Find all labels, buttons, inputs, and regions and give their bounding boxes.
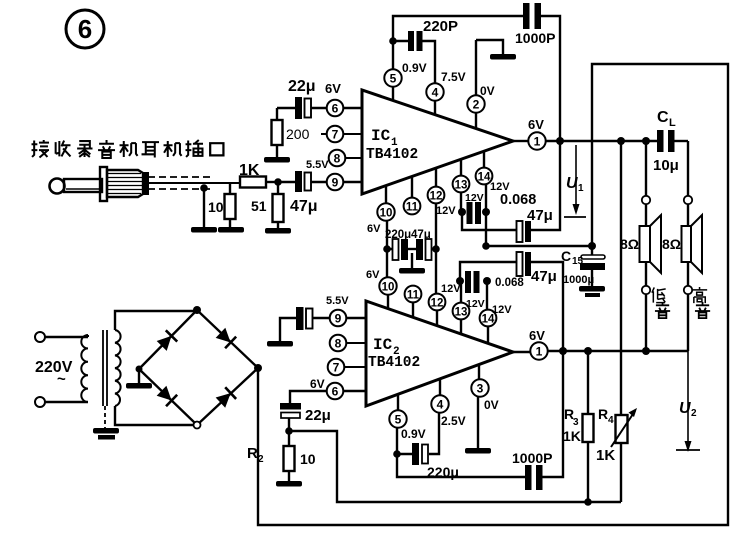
svg-text:47μ: 47μ xyxy=(531,268,557,285)
svg-text:1000P: 1000P xyxy=(515,30,555,46)
pin 10 (IC1) xyxy=(367,186,395,249)
svg-text:1K: 1K xyxy=(239,162,260,179)
svg-text:51: 51 xyxy=(251,198,267,214)
IC2 top pin 10 xyxy=(366,249,397,309)
svg-text:13: 13 xyxy=(455,180,468,192)
svg-text:15: 15 xyxy=(572,256,584,267)
svg-text:12V: 12V xyxy=(441,283,461,295)
svg-text:5: 5 xyxy=(395,413,402,427)
svg-text:220μ: 220μ xyxy=(385,229,411,241)
svg-text:3: 3 xyxy=(477,382,484,396)
ground (R2) xyxy=(276,481,302,487)
IC2 pin 8 xyxy=(330,335,366,352)
svg-text:14: 14 xyxy=(478,172,491,184)
node: C15 xyxy=(588,242,596,250)
ground (IC2 pin 3) xyxy=(465,448,491,454)
svg-text:6: 6 xyxy=(332,102,339,116)
svg-text:22μ: 22μ xyxy=(288,78,316,95)
pin 8 xyxy=(306,150,362,171)
pin 11 (IC1) xyxy=(404,177,421,214)
svg-text:6V: 6V xyxy=(310,377,325,391)
IC2 pin 6 xyxy=(290,377,366,403)
svg-text:0.9V: 0.9V xyxy=(401,427,426,441)
svg-text:2.5V: 2.5V xyxy=(441,414,466,428)
pin 1 output IC1 xyxy=(513,117,546,150)
pin 9 xyxy=(327,174,362,191)
node: output/woofer xyxy=(642,137,650,145)
node: output/R4 xyxy=(617,137,625,145)
svg-text:IC: IC xyxy=(371,127,391,145)
node at pin5 top xyxy=(389,37,397,45)
node: R3 bottom xyxy=(584,498,592,506)
wire: shield to ground xyxy=(203,187,205,227)
svg-text:7: 7 xyxy=(333,361,340,375)
svg-text:200: 200 xyxy=(286,126,310,142)
svg-text:1K: 1K xyxy=(563,428,581,444)
svg-text:47μ: 47μ xyxy=(290,198,318,215)
wire: IC1 output line xyxy=(546,140,657,143)
resistor 1K (series) xyxy=(239,162,278,188)
resistor R3 1K xyxy=(563,351,594,502)
svg-text:7: 7 xyxy=(332,128,339,142)
svg-text:8Ω: 8Ω xyxy=(620,236,639,252)
svg-text:6V: 6V xyxy=(325,81,341,96)
svg-text:5.5V: 5.5V xyxy=(306,159,329,171)
pin 5 xyxy=(384,41,426,100)
svg-text:4: 4 xyxy=(608,415,614,426)
capacitor CL 10u xyxy=(653,109,688,174)
wire: rail to C15 node xyxy=(486,245,592,247)
ground (cap pair) xyxy=(399,268,425,274)
node: output/woofer return xyxy=(642,347,650,355)
svg-text:5.5V: 5.5V xyxy=(326,295,349,307)
node: bridge + xyxy=(254,364,262,372)
svg-text:1: 1 xyxy=(534,135,541,149)
node: pin14 line / V+ rail xyxy=(482,242,490,250)
pin 14 (IC1) xyxy=(476,151,511,246)
label woofer (Chinese) xyxy=(652,287,670,318)
node: output/1000P-47u xyxy=(559,347,567,355)
diode D4 (bottom-right edge) xyxy=(215,387,236,408)
ground (under 200) xyxy=(264,157,290,163)
ground (under 10) xyxy=(218,227,244,233)
svg-text:L: L xyxy=(669,117,676,129)
svg-text:TB4102: TB4102 xyxy=(368,355,420,371)
capacitor 220u (IC2 pin5-pin4) xyxy=(397,413,459,480)
IC2 pin 9 xyxy=(326,295,366,326)
transformer T1 xyxy=(81,311,197,428)
node: output/1000P xyxy=(556,137,564,145)
svg-text:10: 10 xyxy=(300,451,316,467)
ground (shield) xyxy=(191,227,217,233)
capacitor 47u feedback (IC1) xyxy=(462,141,560,242)
ground (IC2 input) xyxy=(267,341,293,347)
capacitor 220P (pin5 to pin4) xyxy=(393,18,458,83)
diode D2 (top-right edge) xyxy=(215,327,236,348)
diode D1 (left-top edge) xyxy=(156,330,177,351)
capacitor 47u feedback (IC2) xyxy=(460,252,563,351)
resistor 200 xyxy=(272,108,310,157)
capacitor 22u (IC2 input bias) xyxy=(280,403,331,431)
pin 1 output IC2 xyxy=(513,328,548,360)
svg-text:1000μ: 1000μ xyxy=(563,274,594,286)
svg-text:0.068: 0.068 xyxy=(500,192,536,208)
svg-text:7.5V: 7.5V xyxy=(441,70,466,84)
svg-text:6V: 6V xyxy=(528,117,544,132)
IC2 pin 11 xyxy=(405,286,422,317)
speaker tweeter 8 ohm xyxy=(662,141,702,351)
svg-text:47μ: 47μ xyxy=(527,207,553,224)
capacitor C15 1000u (supply filter) xyxy=(561,246,605,286)
svg-text:0.068: 0.068 xyxy=(495,277,524,289)
svg-text:12V: 12V xyxy=(492,304,512,316)
svg-text:6V: 6V xyxy=(367,223,381,235)
node: pin5/220u/1000P xyxy=(393,450,401,458)
svg-text:TB4102: TB4102 xyxy=(366,147,418,163)
svg-text:47μ: 47μ xyxy=(411,229,431,241)
svg-text:6V: 6V xyxy=(366,269,380,281)
IC2 pin 12 xyxy=(429,249,462,326)
svg-text:10: 10 xyxy=(382,282,395,294)
ground (under 51) xyxy=(265,228,291,234)
label tweeter (Chinese) xyxy=(692,287,710,318)
svg-text:~: ~ xyxy=(57,371,66,388)
svg-text:4: 4 xyxy=(437,398,444,412)
svg-text:12: 12 xyxy=(430,191,443,203)
wire: pin2 to top ground xyxy=(476,40,503,54)
svg-text:10: 10 xyxy=(208,199,224,215)
capacitor pair 220u + 47u (ripple filter between pin10/pin12 rails) xyxy=(383,229,440,268)
svg-text:0V: 0V xyxy=(484,398,499,412)
wire: cable from plug (shielded, dashed outline) xyxy=(148,177,240,189)
node: output/R3 xyxy=(584,347,592,355)
wire: feedback return to R3/R4 xyxy=(289,431,621,502)
node after 1K xyxy=(274,178,282,186)
svg-text:10μ: 10μ xyxy=(653,157,679,174)
node: bridge top xyxy=(193,306,201,314)
svg-text:1: 1 xyxy=(536,345,543,359)
resistor R2 10 xyxy=(247,431,316,481)
IC2 pin 5 xyxy=(389,394,425,454)
ground (transformer core) xyxy=(93,428,119,434)
ground (bridge -) xyxy=(126,383,152,389)
svg-text:9: 9 xyxy=(332,176,339,190)
IC2 pin 14 xyxy=(480,281,513,343)
svg-text:10: 10 xyxy=(380,208,393,220)
IC2 pin 7 xyxy=(328,359,366,376)
measure arrow U2 xyxy=(676,351,700,452)
svg-text:8: 8 xyxy=(335,337,342,351)
phone plug J1 xyxy=(50,167,149,201)
pin 6 xyxy=(327,100,362,117)
ground (pin 2) xyxy=(490,54,516,60)
svg-text:2: 2 xyxy=(258,454,264,465)
svg-text:220P: 220P xyxy=(423,18,458,35)
node: bridge bottom xyxy=(194,422,201,429)
node: 22u/R2 xyxy=(285,427,293,435)
wire: bridge - to ground xyxy=(138,369,140,383)
op-amp IC2 TB4102 xyxy=(366,301,513,406)
svg-text:220V: 220V xyxy=(35,359,73,376)
wire: IC2 output line xyxy=(548,350,688,353)
node: bridge - xyxy=(136,366,143,373)
ground (C15) xyxy=(579,286,605,292)
svg-text:1000P: 1000P xyxy=(512,450,552,466)
svg-text:8: 8 xyxy=(334,152,341,166)
svg-text:0V: 0V xyxy=(480,84,495,98)
resistor 10 (input shunt) xyxy=(208,183,236,227)
pin 13 (IC1) xyxy=(453,159,484,212)
svg-text:R: R xyxy=(247,445,258,462)
svg-text:5: 5 xyxy=(390,72,397,86)
resistor 51 (shunt) xyxy=(251,182,284,228)
AC source 220V terminals xyxy=(35,332,88,407)
capacitor 1000P (IC2 pin5 node to output) xyxy=(397,351,563,490)
svg-text:IC: IC xyxy=(373,336,393,354)
speaker woofer 8 ohm xyxy=(620,141,661,351)
svg-text:U: U xyxy=(679,400,691,417)
op-amp IC1 TB4102 xyxy=(362,90,513,194)
IC2 pin 4 xyxy=(431,379,465,428)
svg-text:6V: 6V xyxy=(529,328,545,343)
IC2 pin 13 xyxy=(453,281,485,334)
measure arrow U1 xyxy=(564,145,586,217)
svg-text:R: R xyxy=(598,406,608,422)
svg-text:6: 6 xyxy=(78,14,92,44)
node: shield junction xyxy=(200,184,208,192)
svg-text:12: 12 xyxy=(431,298,444,310)
svg-text:22μ: 22μ xyxy=(305,407,331,424)
svg-text:6: 6 xyxy=(332,385,339,399)
svg-text:0.9V: 0.9V xyxy=(402,61,427,75)
resistor R4 1K (preset) xyxy=(596,141,637,502)
pin 7 xyxy=(321,126,362,143)
svg-text:4: 4 xyxy=(432,86,439,100)
svg-text:2: 2 xyxy=(473,98,480,112)
capacitor 22u (pin 6 decoupling) xyxy=(277,78,341,119)
svg-text:U: U xyxy=(566,175,578,192)
pin 2 xyxy=(467,40,494,128)
svg-text:1: 1 xyxy=(578,183,584,194)
diode D3 (left-bottom edge) xyxy=(156,385,177,406)
wire: V+ rail loop (up, right frame, bottom frame, to bridge +) xyxy=(258,64,728,525)
svg-text:1K: 1K xyxy=(596,447,615,464)
svg-text:9: 9 xyxy=(335,312,342,326)
pin 4 xyxy=(426,70,465,114)
svg-text:11: 11 xyxy=(406,202,419,214)
pin 12 (IC1 bottom) xyxy=(428,168,457,249)
svg-text:12V: 12V xyxy=(436,205,456,217)
IC2 pin 3 xyxy=(471,365,498,448)
figure number 6 badge xyxy=(66,10,104,48)
capacitor 0.068 (IC2 pins 13-14) xyxy=(456,271,491,293)
capacitor 47u (IC2 input to ground) xyxy=(280,307,330,341)
capacitor 47u (input coupling to pin 9) xyxy=(278,171,327,215)
svg-text:2: 2 xyxy=(691,408,697,419)
svg-text:3: 3 xyxy=(573,417,579,428)
bridge rectifier xyxy=(139,310,258,425)
caption: input jack label (Chinese) xyxy=(32,140,224,158)
svg-text:11: 11 xyxy=(407,290,420,302)
svg-text:12V: 12V xyxy=(466,298,485,310)
capacitor 1000P (pin5 node to output) xyxy=(393,3,560,141)
svg-text:C: C xyxy=(657,109,669,126)
svg-text:8Ω: 8Ω xyxy=(662,236,681,252)
capacitor 0.068 (IC1 pins 13-14) xyxy=(458,202,490,224)
